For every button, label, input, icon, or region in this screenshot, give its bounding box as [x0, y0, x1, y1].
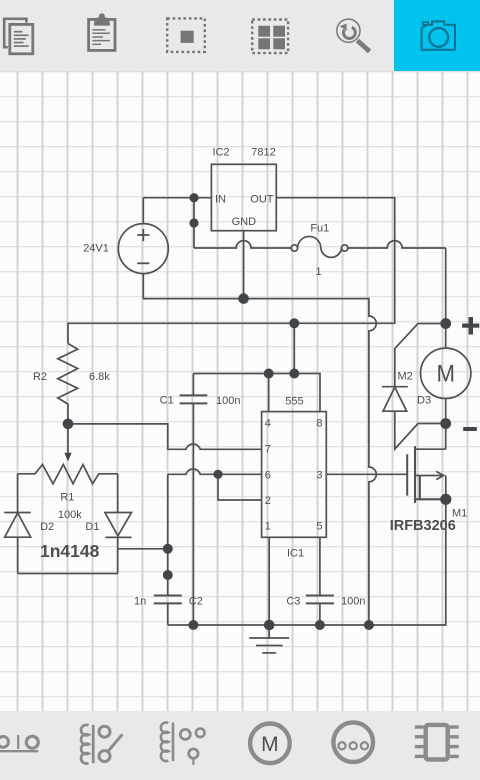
svg-text:1n: 1n: [134, 596, 146, 608]
svg-text:7812: 7812: [251, 147, 275, 159]
icon terminal pair (cut): [0, 735, 38, 751]
wire V1+ to IC2 IN: [143, 197, 211, 199]
wire plus column: [445, 248, 447, 324]
junction motor - node: [440, 418, 451, 429]
junction pin1 ground node: [264, 620, 275, 631]
junction pin4 node: [264, 369, 274, 379]
icon IC chip: [415, 725, 459, 760]
wire fuse row right (hops OUT wire): [348, 241, 446, 248]
svg-text:6.8k: 6.8k: [89, 371, 110, 383]
wire pin 7 to R2 junction (hops C1): [68, 424, 262, 449]
junction pin8 node: [289, 369, 299, 379]
wire IC2 OUT right-down-left to supply junction: [276, 198, 394, 324]
wire IC2 GND down: [243, 231, 245, 299]
capacitor C1: [180, 374, 208, 626]
wire ground rail bottom: [168, 499, 446, 625]
icon select: [167, 18, 205, 52]
junction GND rail node: [238, 293, 249, 304]
IC2 7812 regulator box: [211, 164, 276, 230]
svg-text:R2: R2: [33, 371, 47, 383]
svg-text:D1: D1: [85, 521, 99, 533]
junction C2 column node: [163, 570, 173, 580]
svg-text:M: M: [261, 733, 279, 756]
resistor R2: [58, 344, 78, 424]
svg-text:GND: GND: [232, 216, 257, 228]
svg-text:4: 4: [265, 418, 271, 430]
wire pin 2 jog: [218, 474, 262, 500]
wire pin 6 column down to C2: [167, 474, 169, 595]
svg-text:3: 3: [316, 469, 322, 481]
svg-text:7: 7: [265, 444, 271, 456]
svg-text:R1: R1: [60, 492, 74, 504]
svg-text:M2: M2: [398, 370, 413, 382]
icon copy: [4, 19, 35, 56]
capacitor C3: [306, 596, 334, 626]
wire pin 3 to gate: [326, 473, 407, 475]
diode D1: [105, 513, 132, 574]
fuse Fu1: [291, 236, 348, 257]
junction D1 tee node: [163, 544, 173, 554]
motor M2: [421, 324, 471, 424]
wire supply stub down to 555 rail: [293, 323, 295, 373]
svg-text:D2: D2: [40, 521, 54, 533]
svg-text:OUT: OUT: [250, 194, 274, 206]
svg-text:D3: D3: [417, 395, 431, 407]
wire supply rail to R2: [68, 323, 294, 343]
node + terminal: [462, 317, 479, 335]
svg-text:IRFB3206: IRFB3206: [390, 518, 456, 534]
wire node A drop to fuse row: [193, 198, 195, 248]
diode D2: [4, 513, 31, 574]
junction pin2 node: [213, 470, 222, 479]
junction V1+/IN node: [189, 193, 198, 202]
icon paste clipboard: [89, 13, 115, 50]
junction fuse branch node: [189, 218, 198, 227]
icon opto: [333, 722, 373, 762]
svg-text:C3: C3: [286, 596, 300, 608]
capacitor C2: [154, 596, 182, 626]
wire diode loop bottom: [18, 573, 118, 575]
icon camera: [422, 21, 455, 49]
svg-text:100n: 100n: [341, 596, 365, 608]
icon relay DPST: [161, 723, 205, 765]
svg-text:5: 5: [316, 521, 322, 533]
svg-text:IC2: IC2: [213, 147, 230, 159]
svg-text:C2: C2: [189, 596, 203, 608]
svg-text:1n4148: 1n4148: [40, 541, 100, 561]
svg-text:24V1: 24V1: [83, 243, 109, 255]
icon zoom reset: [337, 19, 370, 51]
ground symbol: [249, 625, 289, 653]
svg-text:1: 1: [315, 266, 321, 278]
junction mosfet source node: [440, 494, 451, 505]
junction supply rail node: [289, 318, 299, 328]
junction R2 wiper node: [63, 419, 74, 430]
icon components grid: [252, 20, 288, 54]
svg-text:100k: 100k: [58, 509, 82, 521]
wire V1+ top lead: [142, 198, 144, 224]
icon motor: [250, 724, 290, 764]
svg-text:Fu1: Fu1: [310, 222, 329, 234]
icon relay SPDT: [81, 725, 122, 764]
wire fuse row left (hops GND wire): [194, 241, 291, 248]
wire pin 1 down: [268, 537, 270, 625]
svg-text:M: M: [437, 361, 456, 388]
potentiometer R1: [18, 465, 118, 513]
junction negative rail ground node: [364, 620, 374, 630]
wire D1 tee to pin6 column: [118, 548, 168, 550]
junction C3 ground node: [315, 620, 325, 630]
svg-text:100n: 100n: [216, 395, 240, 407]
555 timer IC1 box: [262, 412, 327, 538]
svg-text:1: 1: [265, 521, 271, 533]
svg-text:IC1: IC1: [287, 548, 304, 560]
wiper arrow R1: [64, 424, 71, 462]
wire pin 6 row (hops C1): [168, 469, 262, 474]
svg-text:C1: C1: [160, 395, 174, 407]
wire 555 top rail to pin 8: [193, 374, 320, 412]
wire pin 5 down to C3: [319, 537, 321, 595]
mosfet M1 IRFB3206: [407, 424, 446, 504]
node - terminal: [463, 427, 477, 431]
wire pin 4 stub: [268, 374, 270, 412]
junction motor + node: [440, 318, 451, 329]
wire V1- bottom rail to negative column (hops twice): [143, 274, 376, 625]
junction C1 ground node: [188, 620, 198, 630]
diode D3 flyback: [382, 324, 446, 450]
svg-text:IN: IN: [215, 194, 226, 206]
svg-text:6: 6: [265, 469, 271, 481]
svg-text:555: 555: [285, 396, 303, 408]
voltage source 24V1: [118, 224, 168, 274]
svg-text:8: 8: [316, 418, 322, 430]
svg-text:2: 2: [265, 495, 271, 507]
